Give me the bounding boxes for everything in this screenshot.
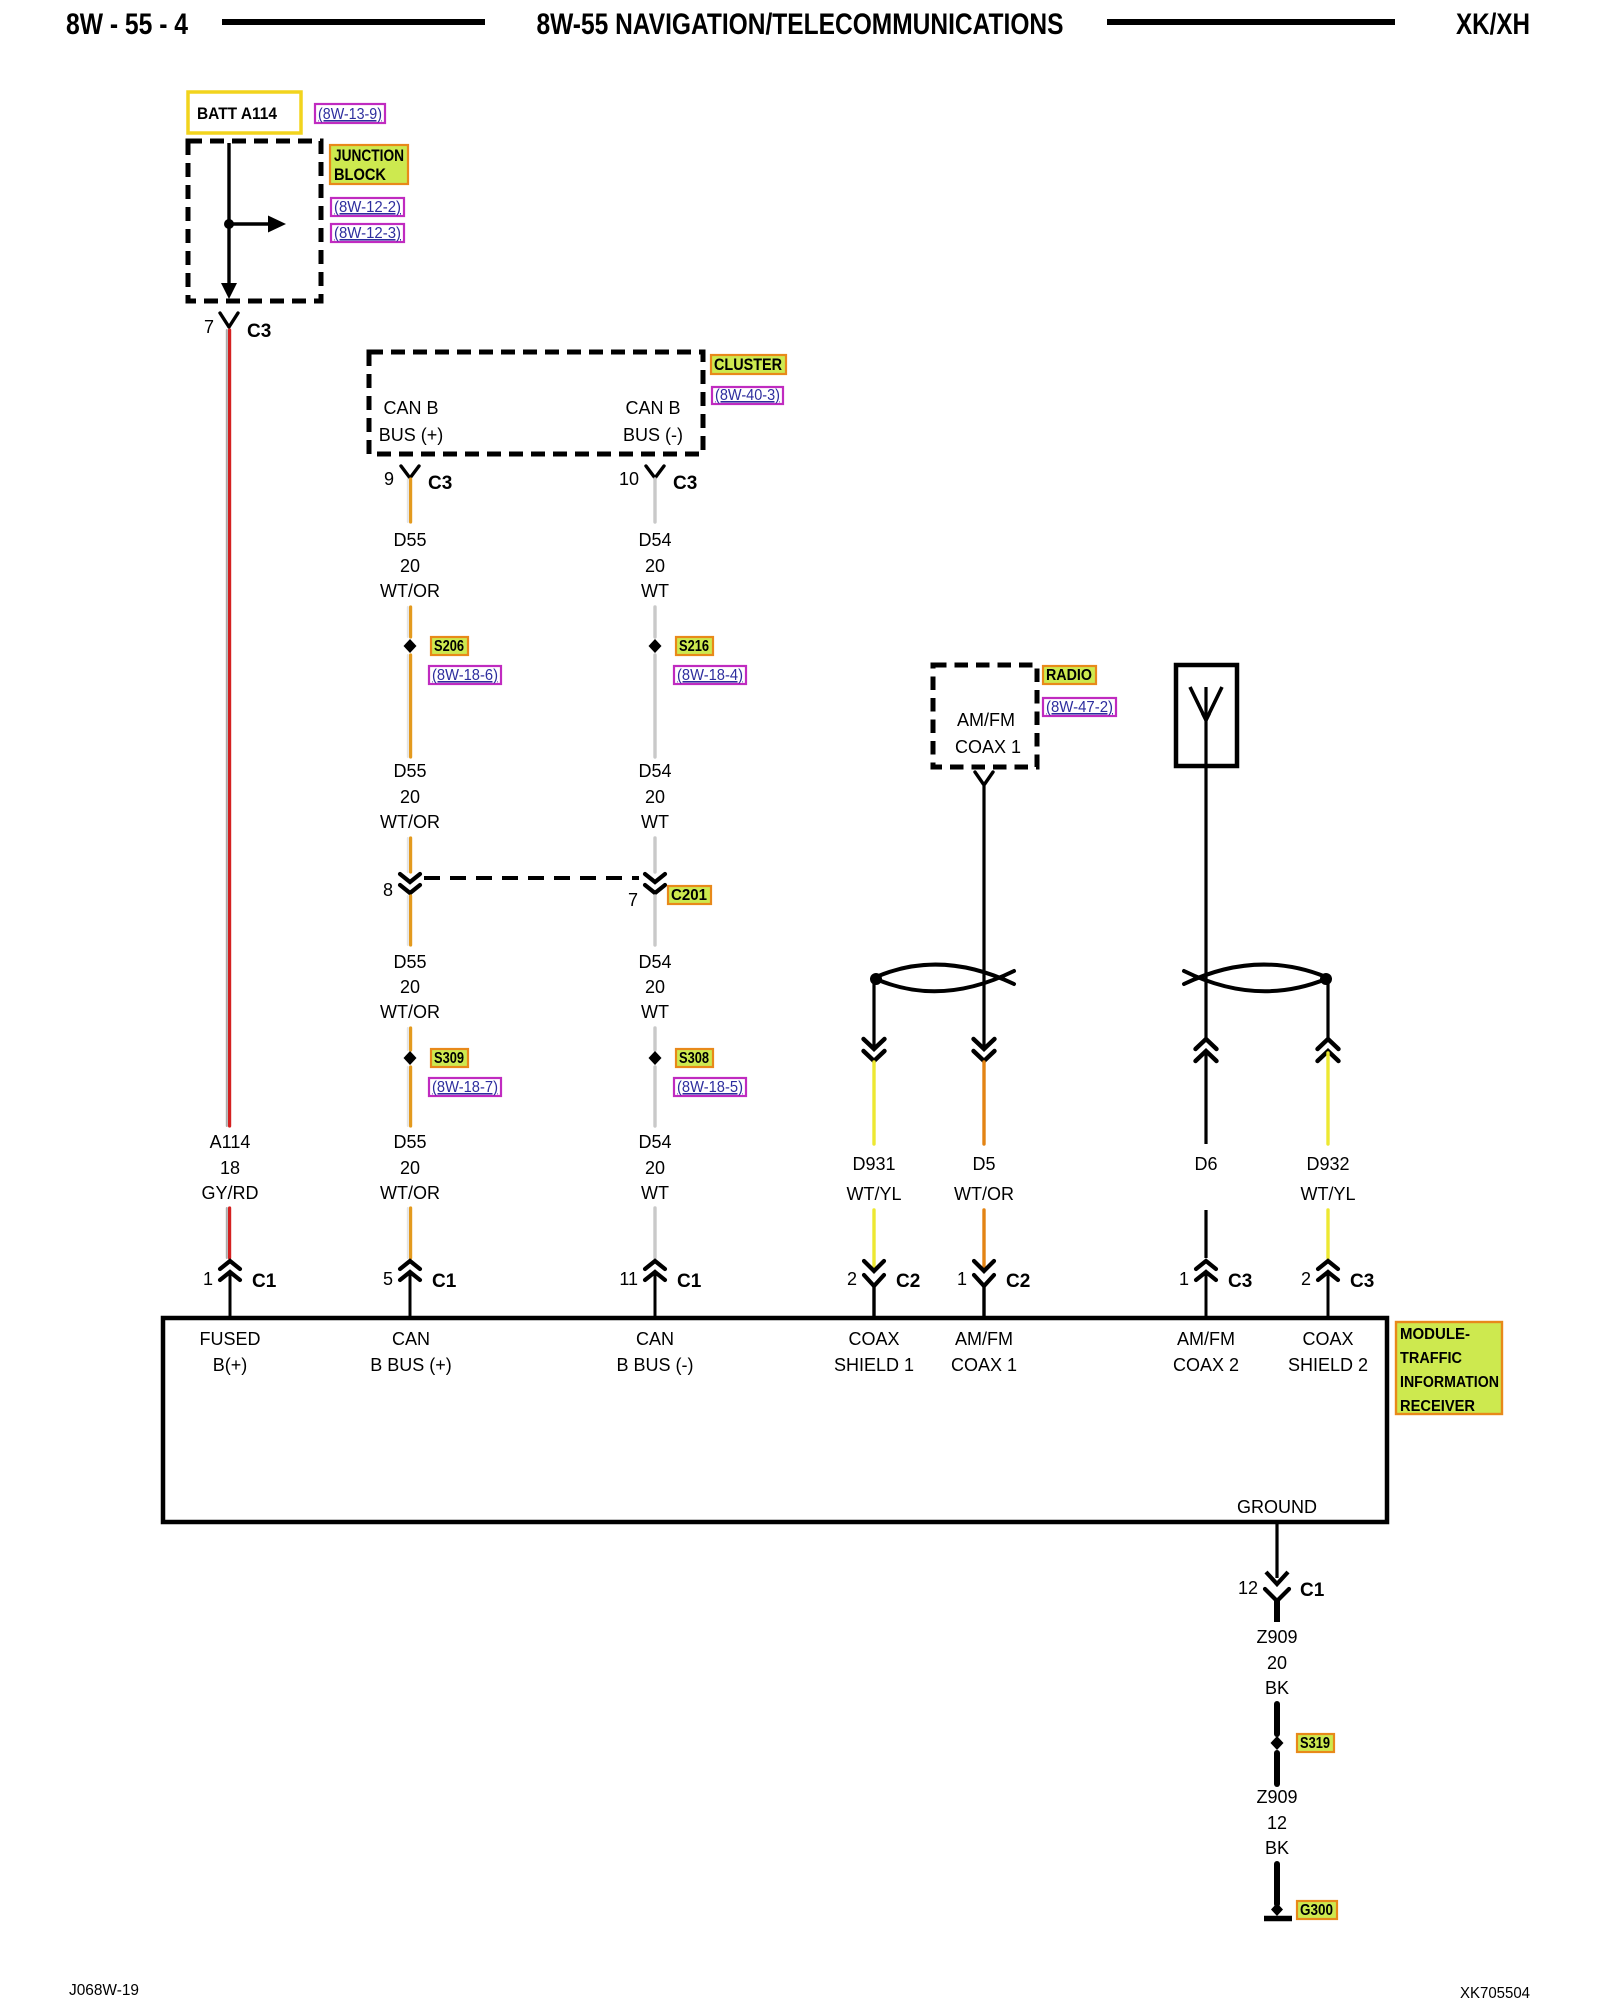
splice S319	[1271, 1736, 1284, 1750]
svg-text:CAN B: CAN B	[383, 398, 438, 418]
svg-text:D55: D55	[393, 530, 426, 550]
wire A114 18 GY/RD segment lower	[227, 1208, 230, 1258]
link 8W-12-2	[331, 198, 404, 216]
coax shield 1 lens loop	[870, 965, 1014, 992]
connector C1 pin 1 (module)	[203, 1261, 277, 1318]
svg-text:TRAFFIC: TRAFFIC	[1400, 1350, 1462, 1367]
splice S308 label	[676, 1049, 713, 1067]
svg-text:A114: A114	[210, 1132, 251, 1152]
svg-text:J068W-19: J068W-19	[69, 1982, 139, 1999]
fuse BATT A114 box	[188, 92, 301, 133]
wire AM/FM coax 2	[1204, 766, 1207, 1039]
svg-text:B(+): B(+)	[213, 1355, 248, 1375]
svg-text:C3: C3	[1350, 1271, 1374, 1292]
svg-text:D55: D55	[393, 952, 426, 972]
svg-text:JUNCTION: JUNCTION	[334, 146, 404, 165]
svg-text:GROUND: GROUND	[1237, 1497, 1317, 1517]
connector C3 pin 10 (cluster)	[619, 466, 697, 494]
wire D54 segment 7	[653, 1067, 656, 1126]
svg-text:SHIELD 2: SHIELD 2	[1288, 1355, 1368, 1375]
junction block dashed box	[188, 141, 321, 301]
cluster CAN B BUS (-) pin name	[623, 398, 683, 445]
connector C3 pin 2 (module)	[1301, 1261, 1374, 1318]
wire label D54 20 WT (2)	[638, 761, 671, 832]
svg-text:WT/YL: WT/YL	[1300, 1184, 1355, 1204]
svg-text:S308: S308	[679, 1050, 709, 1067]
radio coax pin fork	[975, 772, 993, 785]
splice S206	[404, 639, 417, 653]
wire D54 segment 3	[653, 655, 656, 757]
svg-text:1: 1	[203, 1269, 213, 1289]
svg-text:12: 12	[1267, 1813, 1287, 1833]
svg-text:BUS (+): BUS (+)	[379, 425, 444, 445]
chevrons coax 2	[1196, 1039, 1217, 1061]
wire label D931 WT/YL	[846, 1154, 901, 1204]
svg-text:D54: D54	[638, 761, 671, 781]
link 8W-12-3	[331, 224, 404, 242]
wire ground from module	[1275, 1522, 1278, 1572]
wire label D6	[1194, 1154, 1217, 1174]
svg-text:Z909: Z909	[1256, 1787, 1297, 1807]
wire D5 segment 2	[982, 1210, 985, 1267]
wire D55 segment 3	[408, 655, 411, 757]
svg-text:7: 7	[628, 890, 638, 910]
svg-text:D932: D932	[1306, 1154, 1349, 1174]
connector C3 pin 9 (cluster)	[384, 466, 452, 494]
svg-text:20: 20	[645, 977, 665, 997]
wire D55 segment 8	[408, 1208, 411, 1258]
splice S216 label	[676, 637, 713, 655]
wire D55 segment 7	[408, 1067, 411, 1126]
module pin name AM/FM COAX 2	[1173, 1329, 1239, 1375]
svg-text:BATT A114: BATT A114	[197, 104, 277, 123]
wire AM/FM coax 1	[982, 786, 985, 1047]
connector C2 pin 2 (module)	[847, 1261, 920, 1318]
splice S309 label	[431, 1049, 468, 1067]
svg-text:20: 20	[1267, 1653, 1287, 1673]
connector C3 pin 1 (module)	[1179, 1261, 1252, 1318]
svg-text:8W-55 NAVIGATION/TELECOMMUNICA: 8W-55 NAVIGATION/TELECOMMUNICATIONS	[537, 8, 1064, 41]
svg-text:RADIO: RADIO	[1046, 667, 1092, 684]
module pin name COAX SHIELD 1	[834, 1329, 914, 1375]
svg-text:FUSED: FUSED	[199, 1329, 260, 1349]
svg-text:WT: WT	[641, 812, 669, 832]
link 8W-18-4	[674, 666, 746, 684]
module pin name GROUND	[1237, 1497, 1317, 1517]
svg-text:9: 9	[384, 469, 394, 489]
cluster dashed box	[369, 352, 703, 454]
svg-text:(8W-13-9): (8W-13-9)	[318, 106, 382, 123]
svg-text:S319: S319	[1300, 1735, 1330, 1752]
wire label A114 18 GY/RD	[201, 1132, 258, 1203]
wire D55 segment 2	[408, 607, 411, 637]
chevrons coax 1	[974, 1039, 995, 1061]
svg-text:WT: WT	[641, 581, 669, 601]
svg-text:COAX: COAX	[848, 1329, 899, 1349]
svg-text:(8W-18-4): (8W-18-4)	[677, 667, 743, 684]
svg-text:CAN B: CAN B	[625, 398, 680, 418]
svg-text:20: 20	[400, 977, 420, 997]
svg-text:Z909: Z909	[1256, 1627, 1297, 1647]
wire D6 segment 1	[1204, 1053, 1207, 1144]
connector C201 label	[668, 886, 711, 904]
svg-text:(8W-12-3): (8W-12-3)	[334, 225, 401, 242]
wire D932 segment 1	[1326, 1053, 1329, 1144]
svg-text:C3: C3	[1228, 1271, 1252, 1292]
svg-text:WT/YL: WT/YL	[846, 1184, 901, 1204]
svg-text:BK: BK	[1265, 1678, 1289, 1698]
svg-text:8W - 55 - 4: 8W - 55 - 4	[66, 8, 188, 41]
svg-text:(8W-18-5): (8W-18-5)	[677, 1079, 743, 1096]
svg-text:XK705504: XK705504	[1460, 1985, 1530, 2000]
wire label Z909 20 BK	[1256, 1627, 1297, 1698]
svg-text:(8W-47-2): (8W-47-2)	[1046, 699, 1113, 716]
svg-text:COAX 1: COAX 1	[951, 1355, 1017, 1375]
radio dashed box	[933, 665, 1037, 767]
svg-text:D931: D931	[852, 1154, 895, 1174]
wire label Z909 12 BK	[1256, 1787, 1297, 1858]
svg-text:C1: C1	[432, 1271, 457, 1292]
wire label D55 20 WT/OR (1)	[380, 530, 440, 601]
wire label D55 20 WT/OR (2)	[380, 761, 440, 832]
svg-text:BLOCK: BLOCK	[334, 165, 387, 184]
wire D54 segment 6	[653, 1028, 656, 1050]
wire label D55 20 WT/OR (4)	[380, 1132, 440, 1203]
link 8W-18-5	[674, 1078, 746, 1096]
wire D54 segment 4	[653, 838, 656, 872]
svg-text:RECEIVER: RECEIVER	[1400, 1398, 1475, 1415]
splice S309	[404, 1051, 417, 1065]
svg-text:18: 18	[220, 1158, 240, 1178]
connector C201 pin 7 chevrons	[628, 874, 665, 910]
wire label D54 20 WT (3)	[638, 952, 671, 1022]
connector C201 dashed line	[424, 876, 639, 880]
svg-text:1: 1	[1179, 1269, 1189, 1289]
svg-text:WT: WT	[641, 1183, 669, 1203]
wire D55 segment 4	[408, 838, 411, 872]
wire D55 segment 6	[408, 1028, 411, 1050]
svg-text:D55: D55	[393, 1132, 426, 1152]
wire label D5 WT/OR	[954, 1154, 1014, 1204]
wire Z909 segment 1	[1274, 1704, 1280, 1734]
wire D55 segment 5	[408, 896, 411, 945]
svg-text:C201: C201	[671, 887, 707, 904]
svg-text:20: 20	[645, 556, 665, 576]
wire D931 segment 1	[872, 1062, 875, 1144]
ground G300 label	[1297, 1901, 1337, 1919]
splice S308	[649, 1051, 662, 1065]
svg-text:WT/OR: WT/OR	[380, 1183, 440, 1203]
svg-text:7: 7	[204, 317, 214, 337]
svg-text:B BUS (-): B BUS (-)	[616, 1355, 693, 1375]
svg-text:GY/RD: GY/RD	[201, 1183, 258, 1203]
svg-text:11: 11	[619, 1269, 638, 1289]
wire A114 18 GY/RD segment upper	[227, 330, 230, 1126]
link 8W-40-3	[712, 387, 783, 404]
module label MODULE-TRAFFIC INFORMATION RECEIVER	[1396, 1322, 1502, 1415]
connector C201 pin 8 chevrons	[383, 874, 420, 900]
wire label D54 20 WT (4)	[638, 1132, 671, 1203]
svg-text:10: 10	[619, 469, 639, 489]
connector C2 pin 1 (module)	[957, 1261, 1030, 1318]
wire D54 segment 2	[653, 607, 656, 637]
coax shield 2 lens loop	[1184, 965, 1332, 992]
header rule left	[222, 19, 485, 25]
connector C3 pin 7 (junction block)	[204, 313, 271, 342]
svg-text:C2: C2	[896, 1271, 920, 1292]
wire D5 segment 1	[982, 1062, 985, 1144]
svg-text:S206: S206	[434, 638, 464, 655]
svg-text:D54: D54	[638, 530, 671, 550]
wire D931 segment 2	[872, 1210, 875, 1267]
svg-text:2: 2	[1301, 1269, 1311, 1289]
junction block label	[330, 145, 408, 184]
radio AM/FM COAX 1 pin name	[955, 710, 1021, 757]
antenna box	[1176, 665, 1237, 766]
link 8W-47-2	[1043, 698, 1116, 716]
radio label	[1043, 666, 1096, 684]
svg-text:5: 5	[383, 1269, 393, 1289]
antenna symbol	[1190, 687, 1222, 766]
wire label D932 WT/YL	[1300, 1154, 1355, 1204]
svg-text:WT: WT	[641, 1002, 669, 1022]
svg-text:D54: D54	[638, 952, 671, 972]
svg-text:(8W-18-7): (8W-18-7)	[432, 1079, 498, 1096]
link 8W-18-6	[429, 666, 501, 684]
wire label D55 20 WT/OR (3)	[380, 952, 440, 1022]
svg-text:COAX: COAX	[1302, 1329, 1353, 1349]
svg-text:20: 20	[400, 1158, 420, 1178]
svg-text:C1: C1	[1300, 1580, 1325, 1601]
module pin name FUSED B(+)	[199, 1329, 260, 1375]
svg-text:INFORMATION: INFORMATION	[1400, 1374, 1499, 1391]
svg-text:C1: C1	[677, 1271, 702, 1292]
svg-text:D55: D55	[393, 761, 426, 781]
cluster CAN B BUS (+) pin name	[379, 398, 444, 445]
svg-text:G300: G300	[1300, 1902, 1333, 1919]
svg-text:C3: C3	[428, 473, 452, 494]
chevrons shield 2	[1318, 1039, 1339, 1061]
link 8W-13-9	[315, 104, 385, 123]
splice S319 label	[1297, 1734, 1334, 1752]
wire D54 segment 1	[653, 479, 656, 522]
wire D6 segment 2	[1204, 1210, 1207, 1258]
svg-text:WT/OR: WT/OR	[380, 581, 440, 601]
module pin name CAN B BUS (-)	[616, 1329, 693, 1375]
module traffic information receiver box	[163, 1318, 1387, 1522]
splice S206 label	[431, 637, 468, 655]
svg-text:C1: C1	[252, 1271, 277, 1292]
svg-text:C3: C3	[673, 473, 697, 494]
svg-text:CLUSTER: CLUSTER	[714, 355, 782, 374]
svg-text:XK/XH: XK/XH	[1456, 8, 1530, 41]
svg-text:AM/FM: AM/FM	[955, 1329, 1013, 1349]
svg-text:CAN: CAN	[636, 1329, 674, 1349]
wire Z909 segment 3	[1274, 1864, 1280, 1904]
svg-text:D5: D5	[972, 1154, 995, 1174]
module pin name COAX SHIELD 2	[1288, 1329, 1368, 1375]
svg-text:8: 8	[383, 880, 393, 900]
svg-text:WT/OR: WT/OR	[380, 1002, 440, 1022]
svg-text:AM/FM: AM/FM	[957, 710, 1015, 730]
wire D54 segment 8	[653, 1208, 656, 1258]
svg-text:20: 20	[400, 556, 420, 576]
svg-text:AM/FM: AM/FM	[1177, 1329, 1235, 1349]
connector C1 pin 12	[1238, 1572, 1325, 1622]
wire coax shield 1 drop	[872, 982, 875, 1047]
svg-text:20: 20	[645, 787, 665, 807]
junction block internal wire	[221, 143, 286, 299]
svg-text:S309: S309	[434, 1050, 464, 1067]
header rule right	[1107, 19, 1395, 25]
svg-text:D6: D6	[1194, 1154, 1217, 1174]
splice S216	[649, 639, 662, 653]
svg-text:(8W-18-6): (8W-18-6)	[432, 667, 498, 684]
svg-text:B BUS (+): B BUS (+)	[370, 1355, 452, 1375]
svg-text:WT/OR: WT/OR	[954, 1184, 1014, 1204]
svg-text:D54: D54	[638, 1132, 671, 1152]
svg-text:20: 20	[400, 787, 420, 807]
svg-text:20: 20	[645, 1158, 665, 1178]
svg-text:1: 1	[957, 1269, 967, 1289]
svg-text:COAX 2: COAX 2	[1173, 1355, 1239, 1375]
cluster label	[711, 355, 786, 374]
chevrons shield 1	[864, 1039, 885, 1061]
link 8W-18-7	[429, 1078, 501, 1096]
svg-text:CAN: CAN	[392, 1329, 430, 1349]
svg-text:2: 2	[847, 1269, 857, 1289]
svg-text:C2: C2	[1006, 1271, 1030, 1292]
wire Z909 segment 2	[1274, 1753, 1280, 1784]
svg-text:WT/OR: WT/OR	[380, 812, 440, 832]
ground G300 symbol	[1264, 1903, 1292, 1919]
svg-text:(8W-40-3): (8W-40-3)	[715, 387, 780, 404]
wire D55 segment 1	[408, 479, 411, 522]
svg-text:SHIELD 1: SHIELD 1	[834, 1355, 914, 1375]
svg-text:S216: S216	[679, 638, 709, 655]
wire label D54 20 WT (1)	[638, 530, 671, 601]
wire D932 segment 2	[1326, 1210, 1329, 1258]
module pin name AM/FM COAX 1	[951, 1329, 1017, 1375]
wire D54 segment 5	[653, 896, 656, 945]
connector C1 pin 5 (module)	[383, 1261, 457, 1318]
svg-text:C3: C3	[247, 321, 271, 342]
svg-text:BK: BK	[1265, 1838, 1289, 1858]
connector C1 pin 11 (module)	[619, 1261, 701, 1318]
svg-text:12: 12	[1238, 1578, 1258, 1598]
svg-text:MODULE-: MODULE-	[1400, 1326, 1470, 1343]
wire coax shield 2 drop	[1326, 982, 1329, 1039]
svg-text:COAX 1: COAX 1	[955, 737, 1021, 757]
svg-text:(8W-12-2): (8W-12-2)	[334, 199, 401, 216]
svg-text:BUS (-): BUS (-)	[623, 425, 683, 445]
module pin name CAN B BUS (+)	[370, 1329, 452, 1375]
